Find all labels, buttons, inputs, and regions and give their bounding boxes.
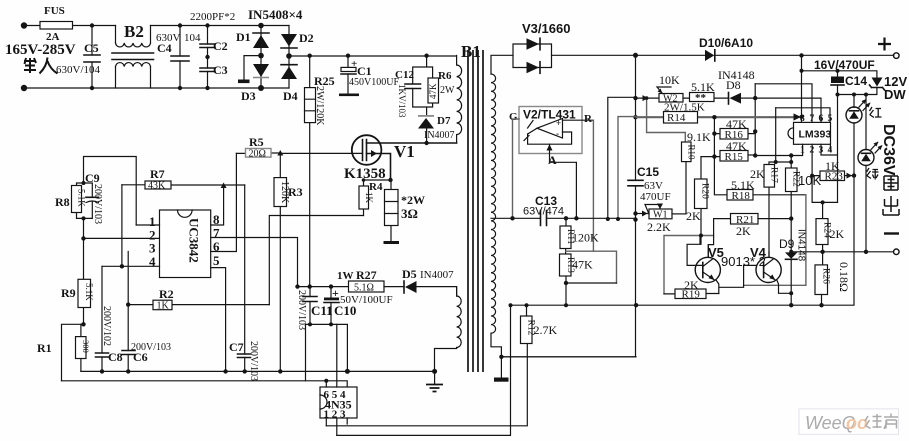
svg-text:R14: R14 xyxy=(667,112,686,124)
svg-text:FUS: FUS xyxy=(44,5,65,17)
svg-text:R7: R7 xyxy=(150,167,165,181)
svg-text:2K: 2K xyxy=(684,278,699,292)
svg-text:200V/103: 200V/103 xyxy=(248,341,259,381)
svg-text:D5: D5 xyxy=(402,267,417,281)
svg-text:200V/103: 200V/103 xyxy=(92,184,103,224)
svg-text:6: 6 xyxy=(819,114,824,124)
svg-text:V4: V4 xyxy=(750,245,767,260)
svg-text:2K: 2K xyxy=(830,227,845,241)
svg-text:V1: V1 xyxy=(394,142,415,161)
svg-text:C14: C14 xyxy=(845,74,867,88)
svg-text:*2W: *2W xyxy=(401,193,425,207)
svg-text:47K: 47K xyxy=(572,258,593,272)
svg-text:R3: R3 xyxy=(288,185,303,199)
svg-text:C4: C4 xyxy=(157,41,172,55)
svg-text:B2: B2 xyxy=(124,22,144,41)
svg-text:5.1K: 5.1K xyxy=(84,283,94,301)
svg-text:C11: C11 xyxy=(311,303,333,318)
svg-text:D4: D4 xyxy=(283,89,298,103)
svg-text:0.18Ω: 0.18Ω xyxy=(837,262,851,292)
svg-text:2K: 2K xyxy=(686,209,701,223)
svg-text:IN4007: IN4007 xyxy=(424,130,455,141)
svg-text:A: A xyxy=(548,153,557,167)
svg-text:R8: R8 xyxy=(55,195,70,209)
svg-text:W1: W1 xyxy=(653,210,667,221)
svg-text:IN4148: IN4148 xyxy=(796,229,807,262)
svg-text:200V/102: 200V/102 xyxy=(101,306,112,346)
svg-text:C5: C5 xyxy=(84,41,99,55)
svg-text:R6: R6 xyxy=(438,70,452,82)
svg-text:63V/474: 63V/474 xyxy=(523,206,564,218)
svg-text:D3: D3 xyxy=(241,89,256,103)
svg-text:C9: C9 xyxy=(85,171,100,185)
svg-text:C8: C8 xyxy=(108,350,123,364)
svg-text:DC36V: DC36V xyxy=(880,124,897,176)
svg-text:R4: R4 xyxy=(369,181,383,193)
svg-text:C12: C12 xyxy=(395,69,414,81)
svg-text:IN4007: IN4007 xyxy=(420,269,454,281)
svg-text:D8: D8 xyxy=(726,78,741,92)
svg-text:C2: C2 xyxy=(213,39,228,53)
svg-text:43K: 43K xyxy=(148,181,166,192)
svg-text:50V/100UF: 50V/100UF xyxy=(340,294,393,306)
svg-text:DW: DW xyxy=(884,87,906,102)
svg-text:5: 5 xyxy=(213,253,220,268)
svg-text:D2: D2 xyxy=(299,31,314,45)
svg-text:5: 5 xyxy=(828,114,833,124)
svg-text:104: 104 xyxy=(184,32,201,44)
svg-text:5.1Ω: 5.1Ω xyxy=(354,283,374,294)
svg-text:16V/470UF: 16V/470UF xyxy=(814,58,875,72)
svg-text:2.7K: 2.7K xyxy=(534,323,558,337)
svg-text:C3: C3 xyxy=(213,63,228,77)
svg-text:10K: 10K xyxy=(659,73,680,87)
svg-text:2W/120K: 2W/120K xyxy=(314,86,325,126)
svg-text:R1: R1 xyxy=(37,341,52,355)
svg-text:V3/1660: V3/1660 xyxy=(522,21,570,36)
svg-text:1KV/103: 1KV/103 xyxy=(397,84,407,118)
svg-text:165V-285V: 165V-285V xyxy=(5,42,76,58)
svg-text:470UF: 470UF xyxy=(640,191,671,203)
svg-text:20Ω: 20Ω xyxy=(249,149,266,160)
svg-text:2W: 2W xyxy=(440,85,455,96)
svg-text:C1: C1 xyxy=(357,64,372,78)
svg-text:450V100UF: 450V100UF xyxy=(349,77,399,88)
svg-text:R5: R5 xyxy=(249,135,264,149)
svg-text:47K: 47K xyxy=(726,139,747,153)
svg-text:G: G xyxy=(509,111,518,123)
svg-text:UC3842: UC3842 xyxy=(187,218,202,263)
svg-text:C7: C7 xyxy=(229,340,244,354)
svg-text:R2: R2 xyxy=(159,287,174,301)
svg-text:2K: 2K xyxy=(736,224,751,238)
svg-text:630V/104: 630V/104 xyxy=(56,64,101,76)
svg-text:120K: 120K xyxy=(572,231,599,245)
svg-text:47K: 47K xyxy=(726,117,747,131)
svg-text:D9: D9 xyxy=(779,237,795,251)
svg-text:200V/103: 200V/103 xyxy=(131,342,171,353)
svg-text:5.1K: 5.1K xyxy=(77,189,87,207)
svg-text:oo: oo xyxy=(846,413,868,433)
svg-text:+: + xyxy=(332,286,339,300)
svg-text:R10: R10 xyxy=(687,145,697,161)
svg-text:R9: R9 xyxy=(61,286,76,300)
svg-text:2200PF*2: 2200PF*2 xyxy=(190,11,235,23)
svg-text:C15: C15 xyxy=(637,165,659,179)
svg-text:R26: R26 xyxy=(821,268,831,284)
svg-text:R: R xyxy=(584,113,593,125)
svg-text:1K: 1K xyxy=(157,301,170,312)
svg-text:9.1K: 9.1K xyxy=(687,130,711,144)
svg-text:-: - xyxy=(556,129,559,139)
svg-text:D7: D7 xyxy=(437,115,451,127)
svg-text:1W: 1W xyxy=(337,270,354,282)
svg-text:7: 7 xyxy=(810,114,815,124)
svg-text:2.2K: 2.2K xyxy=(647,220,671,234)
svg-text:2W/1.5K: 2W/1.5K xyxy=(664,102,705,114)
svg-text:3Ω: 3Ω xyxy=(401,206,418,221)
svg-text:2K: 2K xyxy=(750,167,765,181)
svg-text:LM393: LM393 xyxy=(799,129,832,141)
svg-text:IN5408×4: IN5408×4 xyxy=(248,7,303,22)
svg-text:R20: R20 xyxy=(700,183,710,199)
svg-text:47K: 47K xyxy=(428,83,438,99)
svg-text:1K: 1K xyxy=(364,192,374,204)
svg-text:R27: R27 xyxy=(356,268,377,282)
svg-text:D10/6A10: D10/6A10 xyxy=(699,36,753,50)
svg-text:+: + xyxy=(556,118,561,128)
svg-text:300: 300 xyxy=(81,340,91,353)
svg-text:5.1K: 5.1K xyxy=(691,80,715,94)
svg-text:R17: R17 xyxy=(769,167,779,183)
svg-text:D1: D1 xyxy=(236,30,251,44)
svg-text:V2/TL431: V2/TL431 xyxy=(523,108,576,122)
